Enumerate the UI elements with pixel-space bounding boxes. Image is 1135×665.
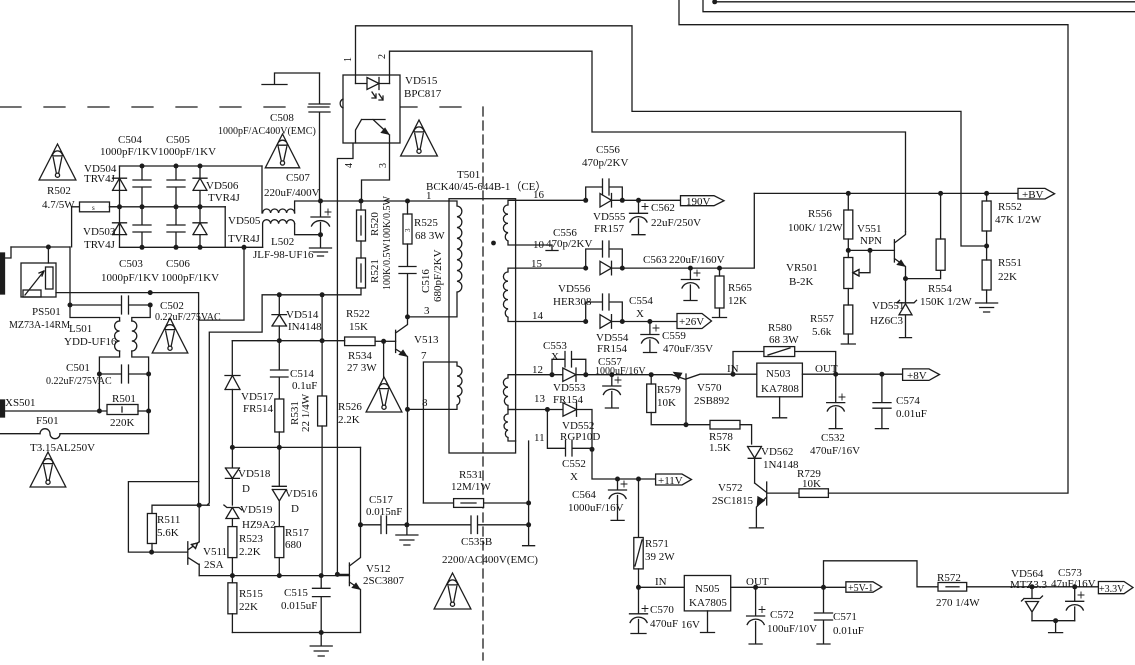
node C552 left bbox=[545, 407, 550, 412]
svg-text:100K/ 1/2W: 100K/ 1/2W bbox=[788, 222, 843, 234]
resistor R551 bbox=[982, 260, 991, 290]
node C503 bottom bbox=[140, 245, 145, 250]
svg-text:+BV: +BV bbox=[1022, 189, 1044, 201]
ground below C515 bbox=[310, 633, 332, 657]
svg-text:1000pF/1KV: 1000pF/1KV bbox=[101, 272, 159, 284]
wire R526 column upper bbox=[321, 295, 323, 396]
flag +3.3V bbox=[1098, 582, 1133, 594]
wire N503 gnd bbox=[773, 397, 787, 418]
svg-text:C516: C516 bbox=[420, 269, 432, 293]
svg-text:PS501: PS501 bbox=[32, 306, 61, 318]
svg-text:R515: R515 bbox=[239, 588, 263, 600]
svg-text:R526: R526 bbox=[338, 401, 362, 413]
svg-text:R502: R502 bbox=[47, 185, 71, 197]
svg-text:4: 4 bbox=[344, 163, 355, 168]
warning symbol near C502 bbox=[152, 318, 188, 353]
svg-text:R520: R520 bbox=[369, 212, 381, 236]
wire IN line bbox=[639, 586, 685, 588]
svg-text:100K/0.5W100K/0.5W: 100K/0.5W100K/0.5W bbox=[382, 196, 393, 290]
svg-text:s: s bbox=[92, 204, 95, 212]
svg-text:TVR4J: TVR4J bbox=[208, 192, 241, 204]
opto LED bbox=[356, 78, 390, 101]
wire gnd stub bbox=[1049, 621, 1063, 633]
svg-text:D: D bbox=[242, 483, 250, 495]
transistor V512 bbox=[337, 525, 360, 633]
diode VD514 bbox=[272, 295, 287, 326]
svg-text:R556: R556 bbox=[808, 208, 832, 220]
svg-text:HZ6C3: HZ6C3 bbox=[870, 315, 904, 327]
svg-text:1000uF/16V: 1000uF/16V bbox=[568, 502, 624, 514]
node VD514 bottom bbox=[277, 338, 282, 343]
svg-text:C559: C559 bbox=[662, 330, 686, 342]
wire bottom return line bbox=[232, 632, 360, 634]
node bottom line C515 bbox=[319, 630, 324, 635]
svg-text:V551: V551 bbox=[857, 223, 881, 235]
resistor R554 bbox=[936, 239, 945, 270]
node C502 left bbox=[68, 303, 73, 308]
node R526 mid tap bbox=[320, 338, 325, 343]
T501 primary winding 2 bbox=[449, 362, 462, 409]
svg-text:IN: IN bbox=[655, 576, 667, 588]
resistor R521 bbox=[357, 258, 366, 288]
svg-text:0.015uF: 0.015uF bbox=[281, 600, 317, 612]
svg-text:VD518: VD518 bbox=[238, 468, 271, 480]
svg-text:C501: C501 bbox=[66, 362, 90, 374]
wire PS501 right to C502 node bbox=[56, 292, 150, 294]
svg-text:C572: C572 bbox=[770, 609, 794, 621]
capacitor C554 bypass loop bbox=[586, 294, 623, 322]
wire C508 top elbow bbox=[262, 73, 320, 85]
node C572 top bbox=[753, 585, 758, 590]
resistor R531 22ohm bbox=[275, 399, 284, 432]
svg-text:VD505: VD505 bbox=[228, 215, 261, 227]
svg-text:VD517: VD517 bbox=[241, 391, 274, 403]
svg-text:3: 3 bbox=[404, 228, 412, 232]
node V512 base bbox=[335, 572, 340, 577]
node C563 top bbox=[688, 266, 693, 271]
node VD555 anode bbox=[583, 198, 588, 203]
svg-text:BPC817: BPC817 bbox=[404, 88, 442, 100]
node C517 line left bbox=[358, 522, 363, 527]
capacitor C562 electrolytic bbox=[630, 200, 648, 234]
node C501 left bbox=[97, 372, 102, 377]
svg-text:68 3W: 68 3W bbox=[769, 334, 799, 346]
svg-text:C514: C514 bbox=[290, 368, 314, 380]
svg-text:100uF/10V: 100uF/10V bbox=[767, 623, 817, 635]
node rail x150 bbox=[148, 290, 153, 295]
wire base node down to warning bbox=[383, 341, 385, 377]
opto transistor bbox=[356, 120, 390, 144]
wire top line1 bbox=[715, 0, 1135, 2]
node R501 left bbox=[97, 409, 102, 414]
diode VD552 bbox=[547, 403, 592, 450]
svg-text:VD553: VD553 bbox=[553, 382, 586, 394]
diode VD518 bbox=[225, 447, 239, 478]
svg-text:190V: 190V bbox=[686, 196, 711, 208]
warning symbol near C508 bbox=[265, 134, 299, 168]
svg-text:C506: C506 bbox=[166, 258, 190, 270]
svg-text:C563: C563 bbox=[643, 254, 667, 266]
svg-text:0.1uF: 0.1uF bbox=[292, 380, 317, 392]
node R526 top tap bbox=[320, 292, 325, 297]
warning symbol near V513 bbox=[366, 377, 402, 412]
capacitor C553 bypass loop bbox=[552, 352, 586, 375]
svg-text:C532: C532 bbox=[821, 432, 845, 444]
capacitor C559 electrolytic bbox=[641, 322, 659, 353]
svg-text:0.01uF: 0.01uF bbox=[896, 408, 927, 420]
svg-text:0.22uF/275VAC: 0.22uF/275VAC bbox=[155, 312, 221, 323]
svg-text:R571: R571 bbox=[645, 538, 669, 550]
wire XS501 to R501 bbox=[5, 410, 108, 412]
node R501 right bbox=[146, 409, 151, 414]
diode VD562 bbox=[748, 447, 762, 484]
svg-text:R551: R551 bbox=[998, 257, 1022, 269]
svg-text:470p/2KV: 470p/2KV bbox=[582, 157, 629, 169]
svg-text:1: 1 bbox=[426, 190, 432, 202]
wire wiper node link bbox=[848, 249, 894, 251]
svg-text:VD562: VD562 bbox=[761, 446, 793, 458]
svg-text:2.2K: 2.2K bbox=[338, 414, 360, 426]
svg-text:7: 7 bbox=[421, 350, 427, 362]
svg-text:220uF/160V: 220uF/160V bbox=[669, 254, 725, 266]
capacitor C501 bbox=[99, 365, 148, 383]
svg-text:D: D bbox=[291, 503, 299, 515]
svg-text:1N4148: 1N4148 bbox=[763, 459, 799, 471]
wire OUT line bbox=[731, 586, 846, 588]
wire R580 loop bbox=[733, 352, 836, 375]
node VD553 cathode bbox=[583, 372, 588, 377]
svg-text:+26V: +26V bbox=[679, 316, 704, 328]
svg-text:22K: 22K bbox=[998, 271, 1017, 283]
svg-text:3: 3 bbox=[378, 163, 389, 168]
svg-text:4.7/5W: 4.7/5W bbox=[42, 199, 75, 211]
wire R511 bottom bbox=[151, 544, 153, 553]
wire connector to PS501 line bbox=[4, 247, 11, 258]
resistor R580 bbox=[764, 347, 795, 357]
svg-text:HZ9A2: HZ9A2 bbox=[242, 519, 276, 531]
wire R729 feedback to top bbox=[679, 0, 1068, 493]
node VD506 top bbox=[198, 164, 203, 169]
resistor R571 bbox=[634, 538, 643, 569]
svg-text:JLF-98-UF16: JLF-98-UF16 bbox=[253, 249, 314, 261]
wire bus1 bbox=[232, 446, 360, 448]
svg-text:V511: V511 bbox=[203, 546, 227, 558]
inductor L502 winding 1 bbox=[262, 166, 295, 213]
svg-text:C502: C502 bbox=[160, 300, 184, 312]
T501 secondary winding C bbox=[503, 375, 515, 410]
node V513 base bbox=[381, 339, 386, 344]
node C574 top bbox=[879, 372, 884, 377]
svg-text:KA7805: KA7805 bbox=[689, 597, 727, 609]
svg-text:VD503: VD503 bbox=[83, 226, 116, 238]
capacitor C563 electrolytic bbox=[681, 268, 699, 300]
node pin11 column C535B bbox=[526, 522, 531, 527]
wire bridge bottom to left vertical A bbox=[199, 247, 244, 320]
svg-text:VD551: VD551 bbox=[872, 300, 904, 312]
svg-text:B-2K: B-2K bbox=[789, 276, 814, 288]
svg-text:R572: R572 bbox=[937, 572, 961, 584]
wire opto pin2 top loop bbox=[390, 51, 906, 232]
svg-text:N503: N503 bbox=[766, 368, 791, 380]
node bus1 VD517 bbox=[230, 445, 235, 450]
svg-text:14: 14 bbox=[532, 310, 544, 322]
svg-text:R523: R523 bbox=[239, 533, 263, 545]
node VD505 bottom bbox=[198, 245, 203, 250]
warning symbol near F501 bbox=[30, 452, 66, 487]
wire vertical A to emitter node bbox=[198, 482, 200, 505]
diode VD505 bbox=[193, 207, 207, 248]
svg-text:R557: R557 bbox=[810, 313, 834, 325]
node VD554 cathode bbox=[620, 319, 625, 324]
wire to +26V flag bbox=[622, 321, 677, 323]
wire R502 to bridge bbox=[110, 206, 120, 208]
svg-text:+11V: +11V bbox=[658, 475, 683, 487]
svg-text:22K: 22K bbox=[239, 601, 258, 613]
node C506 bottom bbox=[174, 245, 179, 250]
svg-text:IN4148: IN4148 bbox=[288, 321, 322, 333]
svg-text:1000pF/1KV: 1000pF/1KV bbox=[161, 272, 219, 284]
svg-text:270 1/4W: 270 1/4W bbox=[936, 597, 980, 609]
svg-text:VD515: VD515 bbox=[405, 75, 438, 87]
svg-text:VD519: VD519 bbox=[240, 504, 273, 516]
capacitor C574 bbox=[873, 374, 891, 428]
node C573 top bbox=[1072, 584, 1077, 589]
wire V513 emitter to V512 area column bbox=[407, 409, 409, 524]
node VD564 top bbox=[1030, 584, 1035, 589]
svg-text:R552: R552 bbox=[998, 201, 1022, 213]
wire R571 column bbox=[638, 479, 640, 538]
svg-text:MZ73A-14RM: MZ73A-14RM bbox=[9, 320, 70, 331]
wire pin16 line bbox=[516, 199, 586, 201]
node mid left bbox=[117, 204, 122, 209]
svg-text:T3.15AL250V: T3.15AL250V bbox=[30, 442, 95, 454]
svg-text:5.6K: 5.6K bbox=[157, 527, 179, 539]
resistor R578 bbox=[686, 424, 710, 426]
svg-text:C564: C564 bbox=[572, 489, 596, 501]
svg-text:TVR4J: TVR4J bbox=[228, 233, 261, 245]
regulator N503 box bbox=[757, 363, 803, 397]
svg-text:2SC1815: 2SC1815 bbox=[712, 495, 753, 507]
svg-text:C562: C562 bbox=[651, 202, 675, 214]
wire VD517 elbow bbox=[231, 341, 233, 375]
diode VD555 bbox=[600, 194, 622, 208]
zener VD551 bbox=[897, 279, 917, 338]
svg-text:L501: L501 bbox=[69, 323, 92, 335]
wire to 190V flag bbox=[622, 199, 680, 201]
capacitor C515 bbox=[313, 576, 331, 633]
svg-text:TRV4J: TRV4J bbox=[84, 173, 116, 185]
wire pin8 line bbox=[408, 408, 450, 410]
wire VD514 feed line bbox=[232, 340, 344, 342]
svg-text:VD506: VD506 bbox=[206, 180, 239, 192]
node bus2 C515 bbox=[319, 573, 324, 578]
node R556 top bbox=[846, 191, 851, 196]
node top line1 bbox=[712, 0, 717, 4]
T501 primary winding 1 bbox=[449, 201, 462, 317]
svg-text:YDD-UF16: YDD-UF16 bbox=[64, 336, 117, 348]
svg-text:0.01uF: 0.01uF bbox=[833, 625, 864, 637]
wire C502 right down to L501 bbox=[132, 305, 150, 321]
wire L502 w1 out bbox=[295, 201, 321, 213]
svg-text:V570: V570 bbox=[697, 382, 722, 394]
node PS501 top bbox=[46, 245, 51, 250]
wire pin15 line to +B corner bbox=[622, 193, 754, 268]
svg-text:FR154: FR154 bbox=[553, 394, 583, 406]
svg-text:R580: R580 bbox=[768, 322, 792, 334]
svg-text:2200/AC400V(EMC): 2200/AC400V(EMC) bbox=[442, 554, 538, 566]
zener VD564 bbox=[1022, 587, 1043, 621]
wire pin12 line to V570 bbox=[586, 374, 672, 376]
svg-text:VD516: VD516 bbox=[285, 488, 318, 500]
connector XS501 bottom body bbox=[0, 400, 5, 417]
svg-text:3: 3 bbox=[424, 305, 430, 317]
node VD514 top bbox=[277, 292, 282, 297]
svg-text:11: 11 bbox=[534, 432, 545, 444]
svg-text:C503: C503 bbox=[119, 258, 143, 270]
node emitter column top bbox=[197, 503, 202, 508]
node R552 top bbox=[984, 191, 989, 196]
node pin11 column R531 bbox=[526, 501, 531, 506]
regulator N505 box bbox=[684, 576, 730, 611]
node C571 top bbox=[821, 585, 826, 590]
svg-text:R517: R517 bbox=[285, 527, 309, 539]
node C562 top bbox=[636, 198, 641, 203]
svg-text:2SB892: 2SB892 bbox=[694, 395, 729, 407]
isolation barrier dashed horizontal bbox=[0, 106, 483, 108]
warning symbol near opto bbox=[401, 120, 438, 156]
svg-text:R525: R525 bbox=[414, 217, 438, 229]
svg-text:47uF/16V: 47uF/16V bbox=[1051, 578, 1096, 590]
svg-text:C571: C571 bbox=[833, 611, 857, 623]
svg-text:220K: 220K bbox=[110, 417, 135, 429]
resistor R565 bbox=[715, 276, 724, 308]
node wiper bbox=[868, 248, 873, 253]
svg-text:C554: C554 bbox=[629, 295, 653, 307]
svg-text:X: X bbox=[570, 471, 578, 483]
svg-text:2.2K: 2.2K bbox=[239, 546, 261, 558]
wire pin11 column with end bar bbox=[523, 441, 535, 546]
flag +11V bbox=[656, 474, 692, 485]
diode VD553 bbox=[552, 368, 586, 381]
wire pin10 stub bbox=[516, 245, 558, 251]
svg-text:MTZ3.3: MTZ3.3 bbox=[1010, 579, 1047, 591]
node bus2 R523 bbox=[230, 573, 235, 578]
wire mid-to-bottom right bbox=[224, 207, 226, 248]
wire PS501 top line bbox=[11, 246, 70, 248]
svg-text:22 1/4W: 22 1/4W bbox=[300, 393, 312, 432]
svg-text:TRV4J: TRV4J bbox=[84, 239, 116, 251]
wire V511 collector to hot bus bbox=[199, 575, 349, 577]
capacitor C505 column bbox=[167, 166, 185, 207]
svg-text:N505: N505 bbox=[695, 583, 720, 595]
resistor R572 bbox=[938, 583, 967, 592]
svg-text:NPN: NPN bbox=[860, 235, 882, 247]
svg-text:1000pF/1KV: 1000pF/1KV bbox=[100, 146, 158, 158]
svg-text:1: 1 bbox=[343, 57, 354, 62]
node pin3 line bbox=[405, 314, 410, 319]
wire F501 to R501 node bbox=[60, 411, 149, 434]
node R571 top bbox=[636, 477, 641, 482]
svg-text:1.5K: 1.5K bbox=[709, 442, 731, 454]
node R520 top bbox=[359, 199, 364, 204]
wire base branch left bbox=[128, 482, 198, 552]
svg-text:R511: R511 bbox=[157, 514, 180, 526]
capacitor C571 bbox=[815, 587, 833, 644]
svg-text:KA7808: KA7808 bbox=[761, 383, 799, 395]
wire R502 branch down bbox=[69, 247, 71, 305]
diode VD503 bbox=[113, 223, 127, 235]
node VD556 cathode bbox=[620, 266, 625, 271]
wire R511 top line bbox=[152, 505, 209, 513]
capacitor C572 electrolytic bbox=[747, 587, 765, 644]
svg-text:1000pF/AC400V(EMC): 1000pF/AC400V(EMC) bbox=[218, 126, 316, 137]
zener VD519 bbox=[224, 505, 242, 527]
svg-text:0.22uF/275VAC: 0.22uF/275VAC bbox=[46, 376, 112, 387]
svg-text:12K: 12K bbox=[728, 295, 747, 307]
resistor R502 bbox=[72, 207, 80, 247]
potentiometer VR501 bbox=[844, 258, 853, 289]
node R565 top bbox=[717, 266, 722, 271]
diode VD516 bbox=[272, 447, 286, 526]
diode VD504 bbox=[113, 178, 127, 190]
node pin8 emitter bbox=[405, 407, 410, 412]
node N505 IN bbox=[636, 585, 641, 590]
svg-text:BCK40/45-644B-1（CE）: BCK40/45-644B-1（CE） bbox=[426, 180, 546, 193]
warning symbol near R502 bbox=[39, 144, 76, 180]
fuse F501 bbox=[40, 429, 60, 439]
wire V512 collector column bbox=[360, 447, 362, 524]
node VD555 cathode bbox=[620, 198, 625, 203]
transformer T501 box bbox=[449, 199, 516, 453]
diode VD517 bbox=[225, 376, 240, 390]
transistor V511 PNP bbox=[188, 542, 199, 576]
svg-text:X: X bbox=[636, 308, 644, 320]
svg-text:39 2W: 39 2W bbox=[645, 551, 675, 563]
node bottom link bbox=[1053, 618, 1058, 623]
svg-text:220uF/400V: 220uF/400V bbox=[264, 187, 320, 199]
svg-text:V513: V513 bbox=[414, 334, 439, 346]
svg-text:C552: C552 bbox=[562, 458, 586, 470]
svg-text:C556: C556 bbox=[596, 144, 620, 156]
svg-text:FR154: FR154 bbox=[597, 343, 627, 355]
wire rail y293 to corner down bbox=[150, 293, 198, 321]
resistor R526 bbox=[318, 396, 327, 426]
node VD556 anode bbox=[583, 266, 588, 271]
svg-text:VD555: VD555 bbox=[593, 211, 626, 223]
svg-text:R579: R579 bbox=[657, 384, 681, 396]
svg-text:47K 1/2W: 47K 1/2W bbox=[995, 214, 1042, 226]
svg-text:V512: V512 bbox=[366, 563, 390, 575]
wire DC rail bbox=[321, 200, 450, 202]
transistor V570 PNP bbox=[672, 374, 732, 425]
capacitor C556b bypass loop bbox=[586, 241, 623, 268]
svg-text:16V: 16V bbox=[681, 619, 700, 631]
wire pin3 line to T501 bbox=[408, 316, 450, 318]
inductor L501 left winding bbox=[115, 321, 120, 351]
capacitor C535B bbox=[407, 516, 529, 534]
wire C501 right down to R501 line bbox=[148, 374, 150, 411]
optocoupler VD515 box bbox=[343, 75, 400, 143]
wire vertical A down bbox=[198, 320, 200, 482]
svg-text:+3.3V: +3.3V bbox=[1099, 584, 1125, 595]
svg-text:C508: C508 bbox=[270, 112, 294, 124]
svg-text:680: 680 bbox=[285, 539, 302, 551]
T501 secondary winding A bbox=[503, 200, 515, 245]
wire C501 left down to R501 line bbox=[98, 374, 100, 411]
svg-text:VR501: VR501 bbox=[786, 262, 818, 274]
svg-text:0.015nF: 0.015nF bbox=[366, 506, 402, 518]
resistor R517 bbox=[275, 527, 284, 558]
